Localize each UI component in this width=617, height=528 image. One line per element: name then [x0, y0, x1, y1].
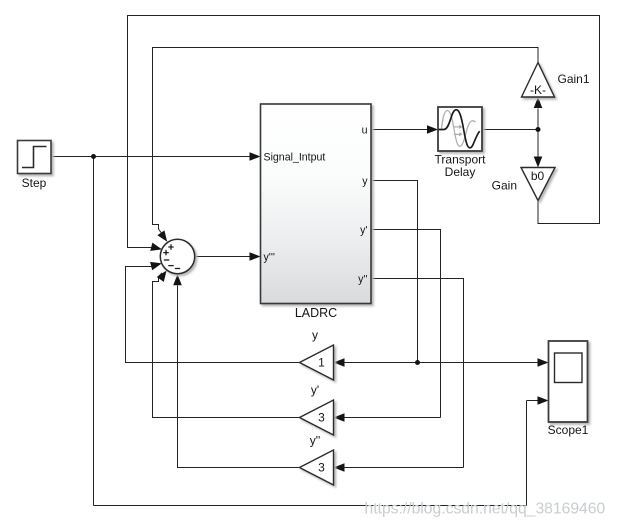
svg-text:Gain: Gain [492, 179, 517, 193]
svg-text:Step: Step [22, 176, 47, 190]
svg-text:Signal_Intput: Signal_Intput [264, 152, 326, 164]
svg-text:y': y' [311, 383, 319, 397]
svg-text:Gain1: Gain1 [558, 72, 590, 86]
svg-text:y'': y'' [310, 434, 321, 448]
svg-text:https://blog.csdn.net/qq_38169: https://blog.csdn.net/qq_38169460 [365, 501, 606, 518]
svg-text:Scope1: Scope1 [548, 423, 589, 437]
svg-text:Delay: Delay [445, 165, 476, 179]
svg-text:y: y [362, 176, 368, 188]
svg-text:-K-: -K- [530, 83, 546, 97]
svg-text:b0: b0 [531, 169, 545, 183]
svg-text:3: 3 [318, 461, 325, 475]
svg-text:3: 3 [318, 411, 325, 425]
svg-text:y'': y'' [358, 274, 367, 286]
svg-text:LADRC: LADRC [295, 306, 337, 320]
svg-text:u: u [362, 125, 368, 137]
svg-text:y': y' [360, 225, 367, 237]
svg-text:1: 1 [318, 356, 325, 370]
svg-text:y: y [312, 328, 318, 342]
svg-text:y''': y''' [264, 252, 275, 264]
